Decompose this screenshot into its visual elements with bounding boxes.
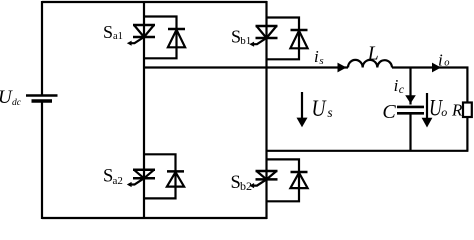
svg-text:b1: b1 — [240, 35, 251, 47]
svg-text:S: S — [103, 22, 113, 42]
svg-text:c: c — [399, 82, 405, 96]
svg-text:L: L — [367, 42, 379, 64]
svg-text:a2: a2 — [113, 175, 123, 187]
svg-text:dc: dc — [12, 98, 22, 108]
svg-text:R: R — [451, 101, 463, 120]
svg-text:s: s — [327, 105, 332, 120]
svg-text:U: U — [312, 96, 327, 121]
svg-text:i: i — [438, 51, 443, 70]
svg-text:o: o — [441, 105, 447, 119]
svg-text:o: o — [444, 58, 449, 69]
svg-text:i: i — [314, 47, 319, 66]
svg-text:b2: b2 — [240, 179, 252, 193]
svg-text:a1: a1 — [113, 31, 123, 42]
svg-text:s: s — [319, 55, 323, 67]
svg-text:C: C — [382, 101, 396, 123]
